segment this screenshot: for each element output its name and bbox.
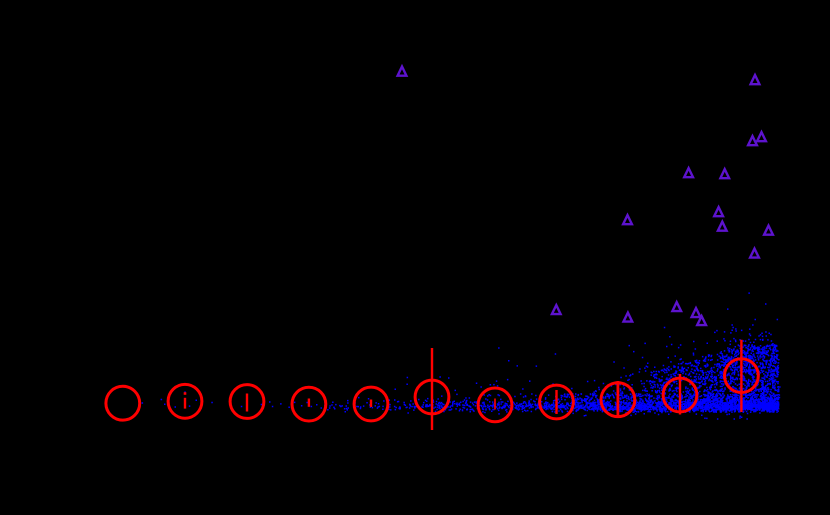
blue data points <box>142 292 781 419</box>
purple outlier triangles <box>398 67 773 326</box>
red bin-mean circles and error bars <box>106 340 758 430</box>
